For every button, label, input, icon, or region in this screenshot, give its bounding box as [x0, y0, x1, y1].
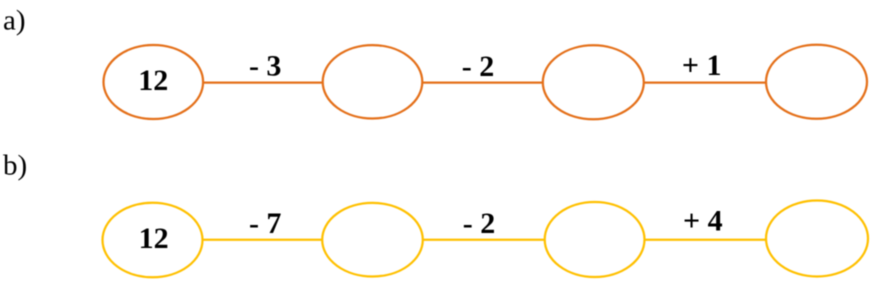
svg-text:a): a): [3, 4, 26, 36]
svg-text:+ 1: + 1: [682, 49, 722, 82]
svg-text:- 2: - 2: [462, 50, 495, 83]
svg-text:12: 12: [139, 222, 169, 255]
svg-text:b): b): [3, 150, 27, 182]
svg-text:- 3: - 3: [249, 50, 282, 83]
svg-text:12: 12: [138, 64, 168, 97]
svg-text:- 7: - 7: [249, 207, 282, 240]
svg-text:- 2: - 2: [463, 207, 496, 240]
svg-text:+ 4: + 4: [683, 205, 723, 238]
